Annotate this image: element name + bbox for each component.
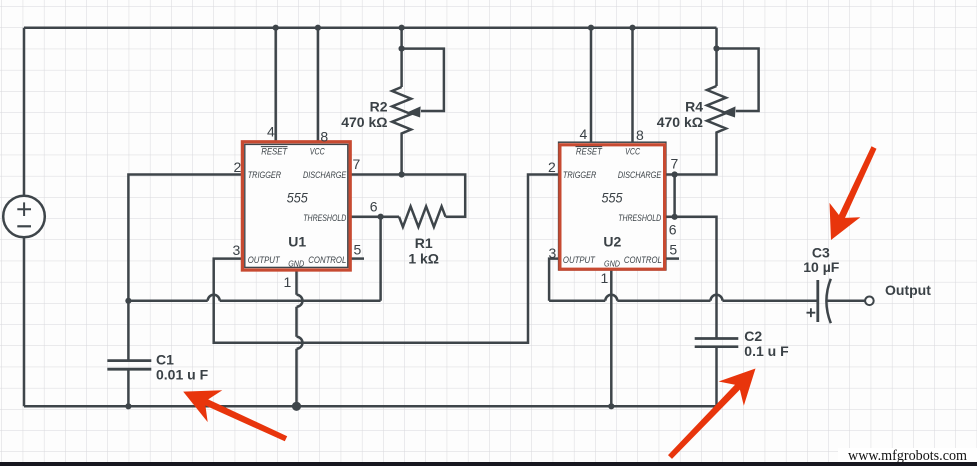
svg-text:U1: U1 — [288, 234, 306, 250]
wiper arrowhead R2 — [406, 106, 420, 117]
node dot U1 pin7 — [399, 171, 405, 177]
wire U1 pin4 drop — [274, 28, 277, 143]
resistor R2 zigzag — [392, 87, 411, 136]
node dot R4 wiper top — [713, 45, 719, 51]
wire hop arch at (611.3,300.8) — [605, 295, 617, 301]
wire U2 pin8 drop — [631, 28, 634, 143]
pin numbers U1 — [233, 124, 378, 291]
wire U1 pin3 output to U2 trigger — [214, 175, 559, 343]
wire top rail — [24, 26, 717, 29]
wire threshold-trigger horizontal with hop at 213.7 — [128, 300, 380, 303]
wire C2 bottom lead — [715, 347, 718, 407]
svg-text:10 µF: 10 µF — [803, 259, 840, 275]
wire hop arch at (716.5,300.8) — [711, 295, 723, 301]
svg-text:DISCHARGE: DISCHARGE — [618, 170, 662, 180]
svg-text:1: 1 — [284, 274, 292, 290]
svg-text:R4: R4 — [685, 99, 703, 115]
svg-text:6: 6 — [669, 222, 677, 238]
wire U1 pin1 gnd with side hops — [295, 271, 298, 407]
svg-text:555: 555 — [602, 190, 623, 206]
source V1 circle — [3, 196, 45, 238]
svg-text:3: 3 — [233, 242, 241, 258]
wire R2 bottom to pin7 — [400, 136, 403, 175]
wire U2 pin3 output to C3 with hops — [549, 259, 818, 301]
node output terminal circle — [865, 297, 874, 306]
wire below source to bottom rail — [23, 238, 26, 407]
svg-text:RESET: RESET — [576, 147, 603, 157]
watermark background — [838, 448, 977, 463]
svg-text:OUTPUT: OUTPUT — [248, 255, 281, 265]
op-amp U1 555 timer box — [242, 142, 350, 270]
svg-text:7: 7 — [671, 156, 679, 172]
wire R2 column top — [400, 28, 403, 87]
svg-text:3: 3 — [549, 245, 557, 261]
wire U1 pin5 stub — [350, 257, 364, 260]
svg-text:GND: GND — [288, 260, 304, 269]
svg-text:470 kΩ: 470 kΩ — [341, 114, 387, 130]
wire U1 pin2 trigger — [128, 175, 242, 361]
node dot C1 rail — [125, 403, 131, 409]
node dot rail pin4 U2 — [588, 25, 594, 31]
wire U1 pin8 drop — [317, 28, 320, 143]
svg-text:CONTROL: CONTROL — [308, 255, 346, 265]
node dot rail R2 — [399, 25, 405, 31]
annotation arrow at C1 — [183, 390, 287, 441]
resistor R1 zigzag — [399, 206, 446, 227]
svg-text:DISCHARGE: DISCHARGE — [303, 170, 347, 180]
node dot rail pin8 U1 — [315, 25, 321, 31]
annotation arrow at C3 — [830, 146, 877, 240]
svg-text:4: 4 — [267, 124, 275, 140]
svg-text:1 kΩ: 1 kΩ — [408, 250, 439, 266]
svg-text:0.1 u F: 0.1 u F — [744, 343, 789, 359]
wire R4 column top — [715, 28, 718, 86]
svg-text:5: 5 — [354, 242, 362, 258]
capacitor C2 — [695, 339, 739, 347]
svg-text:1: 1 — [601, 270, 609, 286]
wire U1 pin6 branch down — [379, 217, 382, 301]
svg-text:THRESHOLD: THRESHOLD — [618, 213, 661, 223]
wire hop arch at (213.7,300.8) — [208, 295, 220, 301]
node dot R2 wiper top — [399, 46, 405, 52]
node dot trigger-threshold — [125, 298, 131, 304]
wire hop arc at (296.5,342.8) — [297, 337, 303, 349]
wire C1 bottom lead — [127, 369, 130, 406]
svg-text:GND: GND — [604, 260, 620, 269]
svg-text:www.mfgrobots.com: www.mfgrobots.com — [848, 448, 967, 464]
svg-text:C2: C2 — [744, 328, 762, 344]
annotation arrow at C2 — [668, 369, 756, 459]
svg-text:470 kΩ: 470 kΩ — [657, 114, 703, 130]
svg-text:Output: Output — [885, 282, 931, 298]
svg-text:5: 5 — [669, 242, 677, 258]
wire U1 pin7 net to R1 right end — [350, 175, 465, 217]
svg-text:0.01 u F: 0.01 u F — [156, 367, 209, 383]
svg-text:R1: R1 — [415, 235, 433, 251]
resistor R4 zigzag — [707, 86, 726, 135]
svg-text:R2: R2 — [370, 99, 388, 115]
wire R2 wiper loop — [402, 49, 444, 111]
svg-text:2: 2 — [548, 159, 556, 175]
capacitor C3 straight plate — [816, 280, 819, 322]
wire hop arc at (296.5,300.8) — [297, 295, 303, 307]
node dot rail pin4 U1 — [273, 25, 279, 31]
svg-text:OUTPUT: OUTPUT — [563, 255, 596, 265]
node dot U2 pin7 — [672, 171, 678, 177]
node dot U2 gnd rail — [608, 403, 614, 409]
wire U2 pin6 to C2 — [665, 217, 716, 339]
svg-text:7: 7 — [353, 156, 361, 172]
svg-text:2: 2 — [234, 159, 242, 175]
pin numbers U2 — [548, 126, 679, 286]
C3 plus polarity mark — [807, 308, 816, 317]
node dot rail pin8 U2 — [629, 25, 635, 31]
bottom border band — [0, 462, 977, 466]
wire U1 pin6 stub — [350, 215, 399, 218]
svg-text:8: 8 — [320, 129, 328, 145]
wire U2 pin1 gnd — [610, 271, 613, 407]
wire U2 pin4 drop — [590, 28, 593, 143]
node dot U1 pin6 — [378, 214, 384, 220]
svg-text:555: 555 — [287, 190, 308, 206]
wire left supply column — [23, 28, 26, 196]
svg-text:THRESHOLD: THRESHOLD — [303, 213, 346, 223]
svg-text:CONTROL: CONTROL — [624, 255, 662, 265]
wire bottom rail — [24, 405, 717, 408]
svg-text:U2: U2 — [603, 234, 621, 250]
svg-text:TRIGGER: TRIGGER — [248, 170, 282, 180]
svg-text:RESET: RESET — [261, 147, 288, 157]
wire U2 pin5 stub — [665, 257, 679, 260]
svg-text:8: 8 — [636, 127, 644, 143]
svg-text:6: 6 — [370, 199, 378, 215]
svg-text:TRIGGER: TRIGGER — [563, 170, 597, 180]
wire R4 wiper loop — [717, 49, 759, 112]
wire U2 pin7-pin6 link — [673, 175, 676, 217]
op-amp U2 555 timer box — [559, 142, 666, 270]
node dot U2 pin6 — [672, 214, 678, 220]
wiper arrowhead R4 — [721, 106, 735, 117]
svg-text:VCC: VCC — [625, 147, 640, 157]
capacitor C1 — [107, 361, 151, 370]
wire C3 to output terminal — [826, 300, 865, 303]
wire R4 bottom to pin7 — [665, 135, 716, 175]
value labels — [156, 99, 931, 383]
svg-text:4: 4 — [580, 126, 588, 142]
source plus sign — [17, 202, 31, 216]
capacitor C3 curved plate — [826, 279, 830, 323]
node big dot U1 gnd rail — [292, 402, 301, 411]
source minus sign — [17, 225, 31, 227]
svg-text:VCC: VCC — [310, 147, 325, 157]
svg-text:C1: C1 — [156, 352, 174, 368]
